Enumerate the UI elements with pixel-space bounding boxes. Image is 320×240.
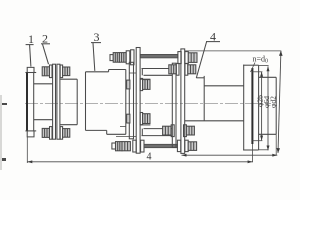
dimension line D1 vertical bbox=[261, 72, 263, 140]
centerline axis bbox=[25, 103, 271, 105]
dimension line D2 vertical bbox=[267, 66, 269, 150]
mid bolt lower left pair washer bbox=[140, 113, 142, 125]
mid bolt upper left pair head bbox=[143, 80, 150, 90]
top tie rod right nut bbox=[188, 53, 197, 63]
left flange top cap bbox=[27, 67, 34, 72]
dimension D2 top arrow bbox=[267, 66, 270, 71]
label 2 bbox=[42, 32, 48, 46]
mid bolt lower left pair head bbox=[143, 114, 150, 124]
right flange pair plate short bbox=[172, 63, 176, 147]
flange 2 bottom bolt washer left bbox=[50, 127, 53, 140]
leader line 4 bbox=[196, 42, 206, 78]
bottom tie rod left nut 2 bbox=[122, 142, 130, 151]
top tie rod right washer 2 bbox=[185, 52, 188, 64]
bottom tie rod left washer bbox=[133, 140, 136, 152]
sleeve collar bbox=[107, 70, 126, 135]
right loose flange front face line bbox=[258, 65, 260, 150]
overall bottom dimension line bbox=[27, 161, 252, 163]
svg-text:1: 1 bbox=[28, 32, 34, 46]
extension line from left flange to bottom dimension bbox=[26, 137, 28, 163]
label 4 underline bbox=[206, 41, 220, 43]
rotated diameter text 1 bbox=[256, 95, 265, 107]
top tie rod threaded shaft bbox=[140, 54, 178, 58]
extension from right flange to bottom dimension bbox=[252, 144, 254, 162]
left pipe top wall bbox=[34, 83, 53, 85]
dimension line D3 vertical overall flange bbox=[278, 51, 281, 153]
mid bolt lower right pair washer right bbox=[184, 125, 187, 137]
gland bottom inner edge bbox=[141, 129, 143, 136]
right loose flange top cap line bbox=[243, 64, 258, 66]
mid bolt upper left pair nut bbox=[127, 80, 130, 89]
gland step bottom line bbox=[140, 124, 150, 126]
rotated diameter text 2 bbox=[262, 96, 271, 108]
svg-text:3: 3 bbox=[94, 30, 100, 44]
flange pair 2 plate B bbox=[57, 64, 60, 139]
middle flange plate P1 short bbox=[129, 62, 133, 139]
top tie rod right washer 1 bbox=[178, 52, 181, 64]
horizontal dimension right arrow bbox=[272, 154, 277, 157]
flange 2 bottom bolt washer right bbox=[60, 127, 62, 140]
gasket line between P1 edges bottom bbox=[116, 136, 136, 138]
label 2 underline bbox=[41, 43, 50, 45]
mid bolt upper right pair washer right bbox=[185, 63, 188, 75]
extension from hub end down bbox=[275, 134, 277, 155]
left flange bottom collar line bbox=[25, 130, 36, 132]
left flange bottom cap bbox=[27, 131, 34, 137]
label 1 underline bbox=[26, 44, 34, 46]
svg-text:4: 4 bbox=[147, 152, 152, 163]
rotated diameter text 3 bbox=[268, 96, 277, 108]
dimension D3 bottom arrow bbox=[277, 148, 281, 153]
gland top inner edge bbox=[141, 69, 143, 76]
right loose flange heavy front edge bbox=[251, 68, 253, 144]
bottom tie rod right nut bbox=[188, 142, 196, 151]
right pipe bottom wall bbox=[185, 120, 244, 122]
right pipe end edge bbox=[203, 76, 205, 121]
top tie rod left washer 1 bbox=[126, 51, 130, 64]
mid bolt lower right pair nut left bbox=[163, 126, 171, 135]
gasket line between P1 edges top bbox=[130, 72, 137, 74]
leader from n=d0 label bbox=[251, 63, 256, 73]
dimension D2 extension ticks bbox=[259, 66, 269, 150]
mid bolt lower right pair nut right bbox=[186, 126, 194, 135]
right hub outline bbox=[259, 77, 277, 134]
gland step top line bbox=[140, 78, 150, 80]
leader line 1 bbox=[30, 45, 31, 67]
left flange top collar line bbox=[25, 72, 36, 74]
inner pipe top line bbox=[144, 74, 173, 76]
left flange body heavy front edge bbox=[26, 73, 28, 132]
left pipe bottom wall bbox=[34, 119, 53, 121]
gland bottom line bbox=[142, 135, 173, 137]
middle flange plate P2 tall bbox=[136, 48, 140, 154]
bottom dimension left arrow bbox=[27, 160, 32, 163]
gland top line bbox=[142, 68, 173, 70]
mid bolt upper right pair nut left bbox=[169, 65, 176, 74]
label 3 underline bbox=[91, 42, 101, 44]
label 1 bbox=[28, 32, 34, 46]
bolt holes label n=d0 bbox=[253, 55, 269, 65]
dimension D3 top arrow bbox=[279, 51, 283, 56]
flange 2 bottom bolt nut left bbox=[42, 128, 49, 137]
bottom tie rod end cap bbox=[112, 143, 116, 149]
left flange body back edge bbox=[33, 73, 35, 132]
mid bolt upper right pair nut right bbox=[188, 65, 196, 74]
top tie rod left washer 2 bbox=[131, 50, 134, 65]
right pipe top wall bbox=[204, 85, 244, 87]
right flange pair plate tall bbox=[181, 49, 185, 153]
flange 2 top bolt nut right bbox=[63, 67, 70, 76]
dimension D2 bottom arrow bbox=[267, 146, 270, 151]
mid bolt lower left pair nut bbox=[127, 114, 130, 123]
label 3 bbox=[94, 30, 100, 44]
mid bolt upper right pair washer left bbox=[176, 63, 179, 75]
bottom tie rod threaded shaft bbox=[144, 144, 177, 147]
right hub top line bbox=[196, 77, 204, 79]
bottom tie rod left nut 1 bbox=[116, 142, 123, 151]
inner pipe bottom line bbox=[144, 128, 173, 130]
dimension D1 bottom arrow bbox=[260, 136, 263, 141]
flange pair 2 plate A bbox=[53, 64, 56, 139]
top tie rod left nut 2 bbox=[119, 53, 126, 63]
svg-text:φd2: φd2 bbox=[268, 96, 277, 108]
flange 2 top bolt washer right bbox=[60, 65, 62, 78]
dimension D3 top extension line bbox=[185, 50, 281, 52]
dimension D1 extension ticks bbox=[252, 72, 262, 141]
leader line 2 bbox=[43, 44, 49, 64]
hub between flange 2 and sleeve bbox=[60, 79, 77, 125]
flange 2 bottom bolt nut right bbox=[63, 129, 70, 138]
dimension D1 top arrow bbox=[260, 72, 263, 77]
right loose flange bottom cap line bbox=[243, 149, 258, 151]
sleeve body (item 3) bbox=[86, 72, 109, 135]
flange 2 top bolt washer left bbox=[50, 65, 53, 78]
mid bolt upper left pair washer bbox=[140, 78, 142, 90]
bottom tie rod right washer 2 bbox=[185, 140, 188, 151]
bottom dimension text 4 bbox=[147, 152, 152, 163]
mid bolt lower right pair washer left bbox=[171, 125, 174, 137]
flange 2 top bolt nut left bbox=[42, 67, 49, 76]
horizontal dimension line right pipe length bbox=[182, 154, 278, 156]
right loose flange back edge bbox=[243, 65, 245, 151]
bottom dimension right arrow bbox=[248, 160, 253, 163]
bottom tie rod right washer inner bbox=[141, 140, 144, 152]
scan edge tick marks bbox=[0, 95, 7, 170]
horizontal dimension left arrow bbox=[182, 154, 187, 157]
label 4 bbox=[210, 30, 216, 44]
leader line 3 bbox=[93, 43, 95, 71]
top tie rod left nut 1 bbox=[113, 53, 119, 63]
top tie rod end cap bbox=[110, 55, 113, 61]
bottom tie rod right washer 1 bbox=[177, 140, 180, 151]
